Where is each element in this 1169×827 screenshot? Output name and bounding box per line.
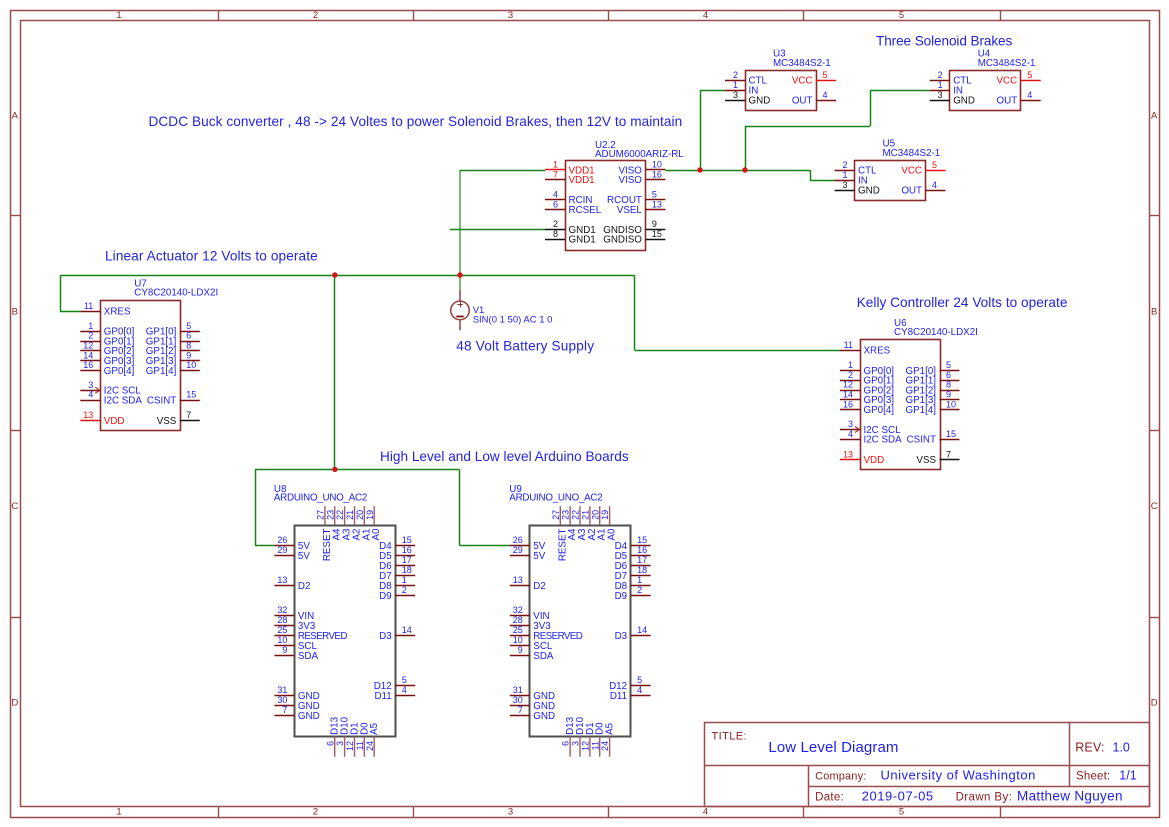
svg-text:5V: 5V bbox=[533, 551, 545, 562]
svg-text:XRES: XRES bbox=[104, 307, 131, 318]
svg-text:4: 4 bbox=[553, 190, 558, 200]
svg-text:1/1: 1/1 bbox=[1119, 768, 1136, 782]
svg-text:GNDISO: GNDISO bbox=[603, 235, 642, 246]
svg-text:1: 1 bbox=[637, 575, 642, 585]
svg-text:2: 2 bbox=[938, 70, 943, 80]
svg-text:Date:: Date: bbox=[815, 791, 844, 803]
svg-text:Sheet:: Sheet: bbox=[1076, 770, 1110, 782]
svg-text:4: 4 bbox=[402, 685, 407, 695]
svg-text:CSINT: CSINT bbox=[907, 435, 936, 446]
svg-text:VSEL: VSEL bbox=[617, 205, 643, 216]
svg-text:D3: D3 bbox=[615, 631, 628, 642]
svg-text:2: 2 bbox=[88, 331, 93, 341]
svg-text:10: 10 bbox=[277, 635, 287, 645]
svg-text:GP1[4]: GP1[4] bbox=[146, 366, 177, 377]
svg-text:3: 3 bbox=[508, 10, 513, 21]
svg-text:15: 15 bbox=[186, 390, 196, 400]
svg-text:TITLE:: TITLE: bbox=[712, 731, 747, 743]
svg-text:Linear Actuator 12 Volts to op: Linear Actuator 12 Volts to operate bbox=[105, 248, 318, 263]
svg-text:SDA: SDA bbox=[298, 651, 319, 662]
svg-text:32: 32 bbox=[277, 605, 287, 615]
svg-text:VDD: VDD bbox=[104, 416, 125, 427]
svg-text:DCDC Buck converter , 48 -> 24: DCDC Buck converter , 48 -> 24 Voltes to… bbox=[149, 114, 683, 129]
svg-text:7: 7 bbox=[186, 410, 191, 420]
svg-text:1: 1 bbox=[842, 170, 847, 180]
svg-text:2: 2 bbox=[637, 585, 642, 595]
svg-text:15: 15 bbox=[946, 429, 956, 439]
svg-text:28: 28 bbox=[513, 615, 523, 625]
svg-text:19: 19 bbox=[600, 510, 610, 520]
svg-text:5: 5 bbox=[637, 675, 642, 685]
svg-text:A0: A0 bbox=[371, 528, 382, 541]
svg-text:23: 23 bbox=[561, 510, 571, 520]
svg-text:12: 12 bbox=[581, 741, 591, 751]
svg-text:22: 22 bbox=[571, 510, 581, 520]
svg-text:GND: GND bbox=[749, 96, 771, 107]
svg-text:REV:: REV: bbox=[1075, 741, 1105, 755]
svg-text:18: 18 bbox=[637, 565, 647, 575]
svg-text:31: 31 bbox=[277, 685, 287, 695]
svg-text:D9: D9 bbox=[615, 591, 628, 602]
svg-text:A: A bbox=[12, 110, 19, 121]
svg-text:5: 5 bbox=[823, 70, 828, 80]
svg-text:2: 2 bbox=[313, 10, 318, 21]
svg-text:2: 2 bbox=[848, 370, 853, 380]
svg-text:5: 5 bbox=[652, 190, 657, 200]
svg-text:D2: D2 bbox=[533, 581, 546, 592]
svg-text:4: 4 bbox=[1027, 90, 1032, 100]
svg-text:25: 25 bbox=[277, 625, 287, 635]
svg-text:GND1: GND1 bbox=[569, 235, 596, 246]
svg-text:2: 2 bbox=[733, 70, 738, 80]
svg-text:24: 24 bbox=[600, 741, 610, 751]
svg-text:D: D bbox=[1151, 697, 1158, 708]
svg-text:2: 2 bbox=[402, 585, 407, 595]
svg-text:5: 5 bbox=[402, 675, 407, 685]
svg-text:20: 20 bbox=[590, 510, 600, 520]
svg-text:21: 21 bbox=[345, 510, 355, 520]
svg-text:13: 13 bbox=[513, 575, 523, 585]
svg-text:I2C SDA: I2C SDA bbox=[104, 395, 143, 406]
svg-text:GP1[4]: GP1[4] bbox=[906, 405, 937, 416]
svg-text:8: 8 bbox=[553, 229, 558, 239]
svg-text:D11: D11 bbox=[374, 691, 391, 702]
svg-text:SIN(0 1 50) AC 1 0: SIN(0 1 50) AC 1 0 bbox=[473, 314, 553, 325]
svg-text:C: C bbox=[1151, 501, 1158, 512]
svg-text:OUT: OUT bbox=[901, 186, 922, 197]
svg-text:16: 16 bbox=[843, 399, 853, 409]
svg-text:VDD1: VDD1 bbox=[569, 175, 595, 186]
svg-text:GND: GND bbox=[858, 186, 880, 197]
svg-text:2: 2 bbox=[313, 807, 318, 818]
svg-text:VSS: VSS bbox=[916, 455, 936, 466]
svg-text:7: 7 bbox=[518, 705, 523, 715]
svg-text:19: 19 bbox=[365, 510, 375, 520]
svg-text:ADUM6000ARIZ-RL: ADUM6000ARIZ-RL bbox=[595, 149, 684, 160]
svg-text:OUT: OUT bbox=[792, 96, 813, 107]
svg-text:C: C bbox=[11, 501, 18, 512]
svg-text:D9: D9 bbox=[379, 591, 392, 602]
svg-text:Kelly Controller 24 Volts to o: Kelly Controller 24 Volts to operate bbox=[857, 295, 1068, 310]
svg-text:6: 6 bbox=[561, 741, 571, 746]
svg-text:30: 30 bbox=[513, 695, 523, 705]
svg-text:D2: D2 bbox=[298, 581, 311, 592]
svg-text:1: 1 bbox=[848, 360, 853, 370]
svg-text:10: 10 bbox=[513, 635, 523, 645]
svg-text:48 Volt Battery Supply: 48 Volt Battery Supply bbox=[456, 338, 594, 353]
svg-text:1: 1 bbox=[402, 575, 407, 585]
svg-text:10: 10 bbox=[186, 360, 196, 370]
svg-text:5: 5 bbox=[1027, 70, 1032, 80]
svg-text:D3: D3 bbox=[379, 631, 392, 642]
svg-text:30: 30 bbox=[277, 695, 287, 705]
svg-text:1: 1 bbox=[116, 10, 121, 21]
svg-text:32: 32 bbox=[513, 605, 523, 615]
svg-text:5: 5 bbox=[932, 160, 937, 170]
svg-text:10: 10 bbox=[946, 399, 956, 409]
svg-text:12: 12 bbox=[83, 341, 93, 351]
svg-text:9: 9 bbox=[946, 390, 951, 400]
svg-text:MC3484S2-1: MC3484S2-1 bbox=[773, 58, 831, 69]
svg-text:11: 11 bbox=[844, 340, 853, 350]
svg-text:5: 5 bbox=[946, 360, 951, 370]
svg-text:RCSEL: RCSEL bbox=[569, 205, 602, 216]
svg-text:GND: GND bbox=[953, 96, 975, 107]
svg-text:26: 26 bbox=[277, 535, 287, 545]
svg-text:25: 25 bbox=[513, 625, 523, 635]
svg-text:11: 11 bbox=[355, 741, 365, 750]
svg-text:1: 1 bbox=[553, 160, 558, 170]
svg-text:17: 17 bbox=[402, 555, 412, 565]
svg-text:27: 27 bbox=[551, 510, 561, 520]
svg-text:11: 11 bbox=[84, 301, 93, 311]
svg-text:Low Level Diagram: Low Level Diagram bbox=[768, 739, 898, 756]
svg-text:9: 9 bbox=[282, 645, 287, 655]
svg-text:28: 28 bbox=[277, 615, 287, 625]
svg-text:VSS: VSS bbox=[157, 416, 177, 427]
svg-text:GND: GND bbox=[533, 711, 555, 722]
svg-text:1: 1 bbox=[116, 807, 121, 818]
svg-text:29: 29 bbox=[513, 545, 523, 555]
svg-text:I2C SDA: I2C SDA bbox=[864, 435, 903, 446]
svg-text:15: 15 bbox=[652, 229, 662, 239]
svg-text:XRES: XRES bbox=[864, 346, 891, 357]
svg-text:13: 13 bbox=[83, 410, 93, 420]
svg-text:2: 2 bbox=[553, 219, 558, 229]
svg-text:OUT: OUT bbox=[997, 96, 1018, 107]
svg-text:5V: 5V bbox=[298, 551, 310, 562]
svg-text:4: 4 bbox=[823, 90, 828, 100]
svg-text:D: D bbox=[11, 697, 18, 708]
svg-text:A5: A5 bbox=[369, 722, 380, 735]
svg-text:GND: GND bbox=[298, 711, 320, 722]
svg-text:4: 4 bbox=[703, 807, 708, 818]
svg-text:31: 31 bbox=[513, 685, 523, 695]
svg-text:2019-07-05: 2019-07-05 bbox=[862, 788, 934, 803]
svg-text:Three Solenoid Brakes: Three Solenoid Brakes bbox=[876, 34, 1012, 49]
svg-text:9: 9 bbox=[518, 645, 523, 655]
svg-text:20: 20 bbox=[355, 510, 365, 520]
svg-text:3: 3 bbox=[733, 90, 738, 100]
svg-text:6: 6 bbox=[946, 370, 951, 380]
svg-text:13: 13 bbox=[843, 449, 853, 459]
svg-text:29: 29 bbox=[277, 545, 287, 555]
svg-text:VCC: VCC bbox=[901, 166, 922, 177]
svg-text:4: 4 bbox=[637, 685, 642, 695]
svg-text:Company:: Company: bbox=[815, 770, 866, 782]
svg-text:6: 6 bbox=[325, 741, 335, 746]
svg-text:MC3484S2-1: MC3484S2-1 bbox=[883, 148, 941, 159]
svg-text:24: 24 bbox=[365, 741, 375, 751]
svg-text:VCC: VCC bbox=[792, 76, 813, 87]
svg-text:VCC: VCC bbox=[997, 76, 1018, 87]
svg-text:D11: D11 bbox=[610, 691, 627, 702]
svg-text:16: 16 bbox=[402, 545, 412, 555]
svg-text:4: 4 bbox=[703, 10, 708, 21]
svg-text:27: 27 bbox=[316, 510, 326, 520]
svg-text:23: 23 bbox=[325, 510, 335, 520]
svg-text:GP0[4]: GP0[4] bbox=[104, 366, 135, 377]
svg-text:GP0[4]: GP0[4] bbox=[864, 405, 895, 416]
svg-text:Matthew Nguyen: Matthew Nguyen bbox=[1017, 788, 1123, 803]
svg-text:13: 13 bbox=[277, 575, 287, 585]
svg-text:4: 4 bbox=[848, 429, 853, 439]
svg-text:CSINT: CSINT bbox=[147, 395, 176, 406]
svg-text:14: 14 bbox=[402, 625, 412, 635]
svg-text:11: 11 bbox=[590, 741, 600, 750]
svg-text:CY8C20140-LDX2I: CY8C20140-LDX2I bbox=[134, 288, 218, 299]
svg-text:6: 6 bbox=[553, 199, 558, 209]
svg-text:5: 5 bbox=[899, 807, 904, 818]
svg-text:13: 13 bbox=[652, 199, 662, 209]
svg-text:2: 2 bbox=[842, 160, 847, 170]
svg-text:1.0: 1.0 bbox=[1113, 741, 1130, 755]
svg-text:1: 1 bbox=[733, 80, 738, 90]
svg-text:University of Washington: University of Washington bbox=[881, 767, 1036, 782]
svg-text:A5: A5 bbox=[605, 722, 616, 735]
svg-text:16: 16 bbox=[637, 545, 647, 555]
svg-text:5: 5 bbox=[899, 10, 904, 21]
svg-text:4: 4 bbox=[932, 180, 937, 190]
svg-text:3: 3 bbox=[335, 741, 345, 746]
svg-text:3: 3 bbox=[508, 807, 513, 818]
svg-text:A0: A0 bbox=[607, 528, 618, 541]
svg-text:A: A bbox=[1151, 110, 1158, 121]
svg-text:1: 1 bbox=[938, 80, 943, 90]
svg-text:3: 3 bbox=[842, 180, 847, 190]
svg-text:3: 3 bbox=[88, 380, 93, 390]
svg-text:14: 14 bbox=[843, 390, 853, 400]
svg-text:9: 9 bbox=[652, 219, 657, 229]
svg-text:1: 1 bbox=[88, 321, 93, 331]
svg-text:17: 17 bbox=[637, 555, 647, 565]
svg-text:15: 15 bbox=[402, 535, 412, 545]
svg-text:B: B bbox=[12, 306, 18, 317]
svg-text:High Level and Low level Ardui: High Level and Low level Arduino Boards bbox=[380, 449, 629, 464]
svg-text:26: 26 bbox=[513, 535, 523, 545]
svg-text:7: 7 bbox=[282, 705, 287, 715]
svg-text:4: 4 bbox=[88, 390, 93, 400]
svg-text:8: 8 bbox=[186, 341, 191, 351]
svg-text:SDA: SDA bbox=[533, 651, 554, 662]
svg-text:B: B bbox=[1151, 306, 1157, 317]
svg-text:22: 22 bbox=[335, 510, 345, 520]
svg-text:ARDUINO_UNO_AC2: ARDUINO_UNO_AC2 bbox=[509, 492, 602, 503]
svg-text:12: 12 bbox=[843, 380, 853, 390]
svg-text:14: 14 bbox=[637, 625, 647, 635]
svg-text:12: 12 bbox=[345, 741, 355, 751]
svg-text:3: 3 bbox=[571, 741, 581, 746]
svg-text:18: 18 bbox=[402, 565, 412, 575]
svg-text:CY8C20140-LDX2I: CY8C20140-LDX2I bbox=[894, 327, 978, 338]
svg-text:MC3484S2-1: MC3484S2-1 bbox=[978, 58, 1036, 69]
svg-text:7: 7 bbox=[946, 449, 951, 459]
svg-text:ARDUINO_UNO_AC2: ARDUINO_UNO_AC2 bbox=[274, 492, 367, 503]
svg-text:VISO: VISO bbox=[618, 175, 642, 186]
svg-text:15: 15 bbox=[637, 535, 647, 545]
svg-text:Drawn By:: Drawn By: bbox=[956, 791, 1013, 803]
svg-text:16: 16 bbox=[83, 360, 93, 370]
svg-text:3: 3 bbox=[848, 419, 853, 429]
svg-text:16: 16 bbox=[652, 169, 662, 179]
svg-text:6: 6 bbox=[186, 331, 191, 341]
svg-text:14: 14 bbox=[83, 350, 93, 360]
svg-text:VDD: VDD bbox=[864, 455, 885, 466]
svg-text:9: 9 bbox=[186, 350, 191, 360]
svg-text:7: 7 bbox=[553, 169, 558, 179]
svg-text:5: 5 bbox=[186, 321, 191, 331]
svg-text:10: 10 bbox=[652, 160, 662, 170]
svg-text:3: 3 bbox=[938, 90, 943, 100]
svg-text:8: 8 bbox=[946, 380, 951, 390]
svg-text:21: 21 bbox=[581, 510, 591, 520]
